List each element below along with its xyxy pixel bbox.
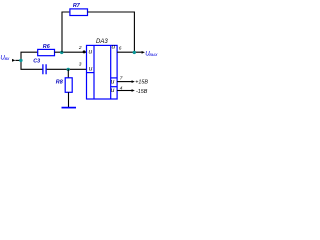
wire pin 4 supply <box>117 90 132 92</box>
svg-text:3: 3 <box>79 61 82 67</box>
resistor R8 <box>65 78 72 93</box>
svg-text:u: u <box>89 49 93 56</box>
wire input riser and branches to R6 and C3 <box>21 52 43 69</box>
wire pin 7 supply <box>117 81 132 83</box>
resistor R6 <box>38 49 55 55</box>
arrow +15V <box>132 80 135 83</box>
svg-text:u: u <box>111 87 115 94</box>
wire junction to R8 <box>67 69 69 78</box>
svg-text:6: 6 <box>119 45 122 51</box>
input terminal arrow <box>12 59 16 62</box>
node R8 junction <box>67 68 70 71</box>
svg-text:DA3: DA3 <box>96 39 108 45</box>
svg-text:C3: C3 <box>33 58 40 64</box>
capacitor C3 <box>43 64 46 74</box>
svg-text:2: 2 <box>78 45 82 51</box>
svg-text:вых: вых <box>149 52 158 57</box>
node feedback junction <box>60 51 63 54</box>
output terminal arrow <box>142 51 145 54</box>
svg-text:7: 7 <box>120 76 123 82</box>
wire feedback top and right riser <box>88 12 135 52</box>
svg-text:вх: вх <box>5 56 10 61</box>
resistor R7 <box>70 9 88 16</box>
svg-text:R8: R8 <box>56 79 63 85</box>
svg-text:+15B: +15B <box>135 80 148 86</box>
wire R6 to pin 2 <box>55 51 87 53</box>
svg-text:u: u <box>112 44 116 51</box>
node input junction <box>19 59 22 62</box>
svg-text:-15B: -15B <box>136 89 148 95</box>
wire output <box>117 51 142 53</box>
svg-text:u: u <box>89 66 93 73</box>
ground <box>62 107 77 109</box>
node pin2 dot <box>83 50 86 53</box>
wire C3 to pin 3 <box>47 68 87 70</box>
svg-text:R7: R7 <box>73 3 81 9</box>
svg-text:R6: R6 <box>43 44 51 50</box>
svg-text:u: u <box>111 79 115 86</box>
op-amp DA3 <box>87 39 118 99</box>
arrow -15V <box>132 89 135 92</box>
wire R8 to ground <box>68 92 70 107</box>
wire input stub <box>15 59 20 61</box>
wire feedback left riser <box>62 12 69 52</box>
node output junction <box>133 51 136 54</box>
